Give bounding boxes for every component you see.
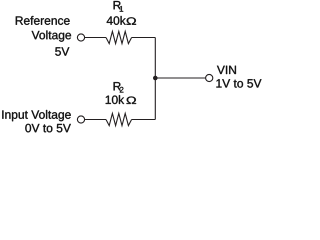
label: 40k value of R1 (107, 16, 126, 25)
wire: top rail from terminal to R1 (85, 37, 106, 39)
label: Omega unit of R2 (127, 97, 137, 104)
terminal circle: Reference Voltage input (77, 34, 84, 41)
label: subscript 1 of R1 (120, 6, 123, 12)
label: Voltage (line 2 of left top text) (32, 31, 71, 42)
resistor R2 body (zigzag) (106, 113, 132, 125)
label: 5V (line 3 of left top text) (55, 47, 69, 55)
terminal circle: Input Voltage input (77, 116, 84, 123)
label: Input Voltage (line 1 of left bottom text) (2, 110, 70, 121)
wire: middle rail from junction to VIN terminal (155, 77, 205, 79)
wire: bottom rail from terminal to R2 (85, 119, 106, 121)
wire: R2 right lead to bottom-right corner (132, 119, 156, 121)
label: Reference (line 1 of left top text) (16, 16, 70, 25)
node: junction dot where R1, R2 and VIN wires meet (153, 76, 158, 81)
label: R2 reference designator (114, 82, 121, 90)
label: 10k value of R2 (106, 95, 124, 104)
label: 0V to 5V (line 2 of left bottom text) (25, 124, 70, 133)
label: R1 reference designator (114, 1, 121, 9)
label: VIN output name (217, 66, 236, 74)
wire: vertical bus from top corner down to bottom corner (154, 38, 156, 120)
label: Omega unit of R1 (127, 17, 137, 24)
resistor R1 body (zigzag) (106, 31, 132, 43)
terminal circle: VIN output (206, 74, 213, 81)
label: subscript 2 of R2 (120, 87, 124, 93)
label: 1V to 5V output range (216, 79, 261, 87)
wire: R1 right lead to top-right corner (132, 37, 156, 39)
